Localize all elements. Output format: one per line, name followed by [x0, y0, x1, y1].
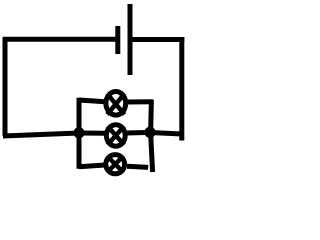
wire: middle branch right stub to node B [126, 130, 150, 136]
node B junction dot [144, 127, 155, 138]
wire: bottom branch left stub [79, 165, 105, 167]
wire: top-right horizontal from battery positive plate [133, 37, 185, 42]
wire: right branch vertical (parallel bus) [151, 100, 153, 172]
wire: top-left horizontal from outer corner to battery negative plate [3, 37, 116, 42]
lamp L2 (middle) [106, 125, 125, 146]
wire: top branch left stub [79, 100, 105, 102]
lamp L1 (top) [106, 92, 126, 116]
wire: left outer vertical [3, 37, 8, 136]
wire: left branch vertical (parallel bus) [77, 98, 82, 169]
wire: bottom branch right stub [127, 166, 148, 167]
wire: middle branch left stub from node A [79, 131, 105, 136]
lamp L3 (bottom) [106, 155, 125, 174]
wire: right outer vertical [179, 37, 184, 141]
wire: connector from node B to right outer vertical [150, 133, 182, 135]
wire: top branch right stub [127, 99, 153, 104]
battery B1 negative short plate [115, 26, 120, 54]
wire: bottom-left horizontal to node A [3, 133, 79, 136]
node A junction dot [73, 127, 84, 138]
battery B1 positive long plate [128, 4, 133, 75]
